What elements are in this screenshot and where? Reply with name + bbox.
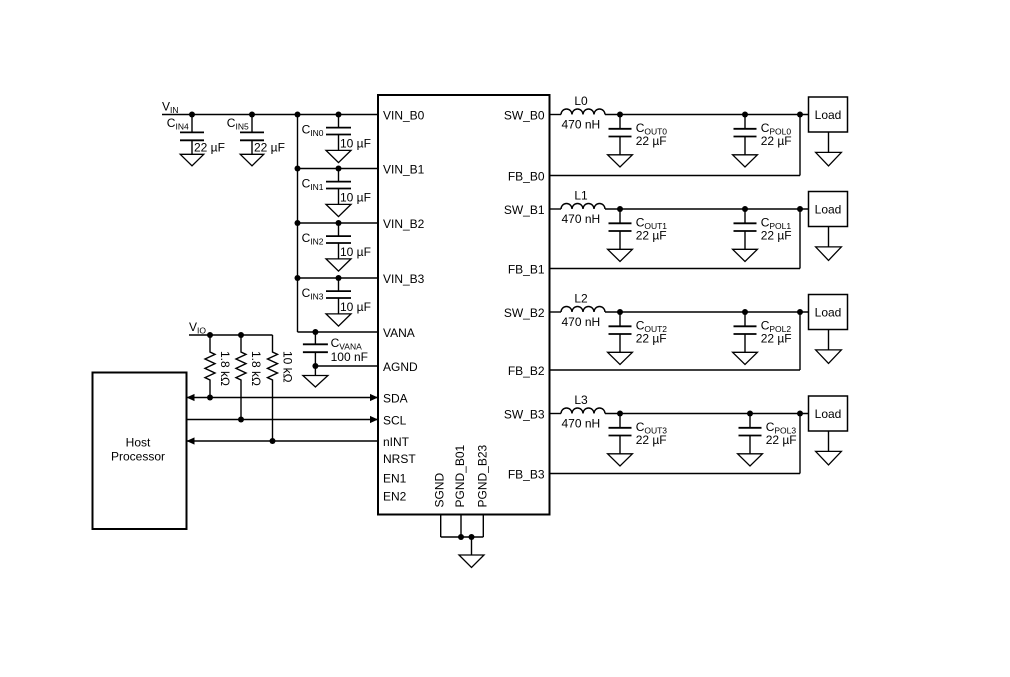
wire VIN vertical bus — [297, 115, 299, 333]
label COUT2 — [636, 319, 668, 335]
capacitor CIN0 10uF — [326, 115, 351, 151]
svg-text:CIN3: CIN3 — [302, 286, 324, 302]
capacitor COUT2 22uF — [609, 312, 632, 352]
ground CIN5 — [240, 154, 264, 166]
label CPOL0 — [761, 121, 792, 137]
ground CIN3 — [326, 314, 351, 326]
pin label VANA — [383, 326, 415, 340]
svg-text:22 µF: 22 µF — [761, 134, 792, 148]
junction CIN3-VIN_B3 — [336, 275, 342, 281]
net VIO label — [189, 320, 206, 336]
svg-text:Processor: Processor — [111, 450, 165, 464]
inductor L3 470nH — [561, 408, 605, 413]
svg-text:FB_B3: FB_B3 — [508, 468, 545, 482]
label L2 — [574, 292, 588, 306]
value CIN4 22 uF — [194, 140, 225, 154]
junction FB_B3 tap — [797, 411, 803, 417]
pin label EN1 — [383, 472, 407, 486]
wire FB_B2 — [550, 369, 801, 371]
ground COUT0 — [608, 155, 633, 167]
svg-text:22 µF: 22 µF — [636, 332, 667, 346]
svg-text:L2: L2 — [574, 292, 588, 306]
wire PGND_B23 down — [482, 515, 484, 538]
IC U1 main box — [378, 95, 550, 515]
wire VIN rail — [162, 114, 378, 116]
capacitor CPOL3 22uF — [739, 414, 762, 454]
pin label EN2 — [383, 490, 407, 504]
svg-text:Load: Load — [815, 407, 842, 421]
capacitor CPOL0 22uF — [734, 115, 757, 155]
junction CPOL3 — [747, 411, 753, 417]
junction FB_B2 tap — [797, 309, 803, 315]
value CIN2 10 uF — [340, 245, 371, 259]
pin label NRST — [383, 452, 416, 466]
junction bus-VIN_B1 — [295, 166, 301, 172]
wire FB_B3 vertical — [799, 414, 801, 474]
label CPOL3 — [766, 420, 797, 436]
ground COUT1 — [608, 249, 633, 261]
junction VIN-CIN5 — [249, 112, 255, 118]
capacitor COUT3 22uF — [609, 414, 632, 454]
junction bus-VIN_B3 — [295, 275, 301, 281]
value CPOL2 22 uF — [761, 332, 792, 346]
value L0 470 nH — [562, 117, 601, 131]
pin label SCL — [383, 414, 407, 428]
pin label SW_B1 — [504, 203, 545, 217]
label L1 — [574, 189, 588, 203]
wire L3 to Load — [605, 413, 809, 415]
load box block 3 — [809, 396, 848, 431]
svg-text:FB_B2: FB_B2 — [508, 364, 545, 378]
junction CIN2-VIN_B2 — [336, 220, 342, 226]
svg-text:L3: L3 — [574, 393, 588, 407]
wire FB_B0 — [550, 175, 801, 177]
pin label PGND_B01 — [453, 444, 467, 507]
svg-text:470 nH: 470 nH — [562, 315, 601, 329]
value COUT0 22 uF — [636, 134, 667, 148]
wire L1 to Load — [605, 208, 809, 210]
svg-text:CIN0: CIN0 — [302, 123, 324, 139]
wire SW_B2 to L2 — [550, 311, 562, 313]
wire ground bar — [441, 536, 484, 538]
svg-text:CIN5: CIN5 — [227, 116, 249, 132]
ground CPOL0 — [733, 155, 758, 167]
ground CIN0 — [326, 150, 351, 162]
svg-text:VIN_B3: VIN_B3 — [383, 272, 425, 286]
junction VIN-CIN4 — [189, 112, 195, 118]
wire L0 to Load — [605, 114, 809, 116]
net VIN label — [162, 100, 179, 116]
ground CPOL3 — [738, 454, 763, 466]
junction CIN1-VIN_B1 — [336, 166, 342, 172]
inductor L0 470nH — [561, 109, 605, 115]
pin label FB_B0 — [508, 170, 545, 184]
svg-text:CIN1: CIN1 — [302, 177, 324, 193]
capacitor CIN3 10uF — [326, 278, 351, 314]
capacitor COUT0 22uF — [609, 115, 632, 155]
svg-text:470 nH: 470 nH — [562, 117, 601, 131]
resistor R3 10k nINT pullup — [268, 335, 278, 441]
svg-text:22 µF: 22 µF — [636, 229, 667, 243]
svg-text:SW_B3: SW_B3 — [504, 408, 545, 422]
host processor box — [93, 373, 187, 530]
ground PGND — [459, 537, 484, 568]
pin label PGND_B23 — [475, 444, 489, 507]
pin label FB_B2 — [508, 364, 545, 378]
svg-text:L1: L1 — [574, 189, 588, 203]
value COUT2 22 uF — [636, 332, 667, 346]
value R2 1.8 kOhm — [249, 351, 263, 386]
value CIN0 10 uF — [340, 137, 371, 151]
load box block 1 — [809, 192, 848, 227]
wire VIN_B1 feed — [298, 168, 379, 170]
capacitor CVANA 100nF — [303, 332, 328, 366]
label CIN0 — [302, 123, 324, 139]
value COUT1 22 uF — [636, 229, 667, 243]
svg-text:FB_B1: FB_B1 — [508, 263, 545, 277]
svg-text:22 µF: 22 µF — [761, 229, 792, 243]
pin label VIN_B0 — [383, 109, 425, 123]
pin label VIN_B2 — [383, 217, 425, 231]
junction stem-bar — [469, 534, 475, 540]
value L3 470 nH — [562, 416, 601, 430]
svg-text:VIN_B2: VIN_B2 — [383, 217, 425, 231]
label L0 — [574, 94, 588, 108]
junction VIN-CIN0 — [336, 112, 342, 118]
pin label SW_B3 — [504, 408, 545, 422]
junction R1-SDA — [207, 395, 213, 401]
svg-text:SW_B1: SW_B1 — [504, 203, 545, 217]
junction R3-nINT — [270, 438, 276, 444]
wire SGND down — [440, 515, 442, 538]
svg-text:10 µF: 10 µF — [340, 245, 371, 259]
inductor L2 470nH — [561, 307, 605, 312]
svg-text:22 µF: 22 µF — [254, 140, 285, 154]
label CIN3 — [302, 286, 324, 302]
svg-text:10 µF: 10 µF — [340, 191, 371, 205]
ground Load2 — [816, 330, 842, 364]
wire SW_B3 to L3 — [550, 413, 562, 415]
svg-text:Load: Load — [815, 203, 842, 217]
inductor L1 470nH — [561, 204, 605, 210]
wire FB_B2 vertical — [799, 312, 801, 370]
wire VIN_B3 feed — [298, 277, 379, 279]
label CPOL1 — [761, 216, 792, 232]
svg-text:Load: Load — [815, 306, 842, 320]
svg-text:SW_B0: SW_B0 — [504, 109, 545, 123]
svg-text:SGND: SGND — [433, 472, 447, 507]
ground Load0 — [816, 132, 842, 166]
ground CPOL1 — [733, 249, 758, 261]
junction COUT3 — [617, 411, 623, 417]
svg-text:22 µF: 22 µF — [761, 332, 792, 346]
wire FB_B0 vertical — [799, 115, 801, 176]
label COUT0 — [636, 121, 668, 137]
value R1 1.8 kOhm — [218, 351, 232, 386]
label COUT3 — [636, 420, 668, 436]
svg-text:10 kΩ: 10 kΩ — [281, 351, 295, 383]
junction FB_B0 tap — [797, 112, 803, 118]
ground AGND — [303, 366, 328, 387]
ground COUT2 — [608, 352, 633, 364]
wire FB_B3 — [550, 473, 801, 475]
capacitor CIN4 22uF — [180, 115, 204, 155]
svg-text:100 nF: 100 nF — [331, 350, 368, 364]
svg-text:VANA: VANA — [383, 326, 415, 340]
svg-text:CIN2: CIN2 — [302, 231, 324, 247]
junction PGND_B01-bar — [458, 534, 464, 540]
capacitor CIN5 22uF — [240, 115, 264, 155]
wire AGND — [315, 365, 378, 367]
svg-text:VIO: VIO — [189, 320, 206, 336]
pin label FB_B1 — [508, 263, 545, 277]
svg-text:22 µF: 22 µF — [636, 433, 667, 447]
value CPOL3 22 uF — [766, 433, 797, 447]
pin label SGND — [433, 472, 447, 507]
pin label VIN_B1 — [383, 163, 425, 177]
ground CPOL2 — [733, 352, 758, 364]
wire VANA feed — [298, 331, 379, 333]
junction CVANA-VANA — [312, 329, 318, 335]
svg-text:10 µF: 10 µF — [340, 137, 371, 151]
junction VIN-bus — [295, 112, 301, 118]
wire nINT — [187, 437, 379, 444]
junction CVANA-AGND — [312, 363, 318, 369]
wire VIN_B2 feed — [298, 222, 379, 224]
wire SW_B0 to L0 — [550, 114, 562, 116]
svg-text:PGND_B01: PGND_B01 — [453, 444, 467, 507]
wire PGND_B01 down — [460, 515, 462, 538]
value CVANA 100 nF — [331, 350, 368, 364]
value CIN3 10 uF — [340, 300, 371, 314]
pin label VIN_B3 — [383, 272, 425, 286]
junction CPOL0 — [742, 112, 748, 118]
svg-text:10 µF: 10 µF — [340, 300, 371, 314]
label CIN1 — [302, 177, 324, 193]
resistor R2 1.8k SCL pullup — [236, 335, 246, 420]
svg-text:SDA: SDA — [383, 392, 408, 406]
capacitor CPOL2 22uF — [734, 312, 757, 352]
junction bus-VIN_B2 — [295, 220, 301, 226]
label CIN4 — [167, 116, 189, 132]
pin label SDA — [383, 392, 408, 406]
svg-text:CIN4: CIN4 — [167, 116, 189, 132]
svg-text:Host: Host — [126, 436, 151, 450]
ground Load3 — [816, 431, 842, 465]
resistor R1 1.8k SDA pullup — [205, 335, 215, 398]
label CPOL2 — [761, 319, 792, 335]
svg-text:22 µF: 22 µF — [636, 134, 667, 148]
svg-text:L0: L0 — [574, 94, 588, 108]
ground CIN2 — [326, 259, 351, 271]
wire L2 to Load — [605, 311, 809, 313]
wire SDA — [187, 394, 379, 401]
wire VIO rail — [189, 334, 273, 336]
value CPOL0 22 uF — [761, 134, 792, 148]
capacitor CIN1 10uF — [326, 169, 351, 205]
ground COUT3 — [608, 454, 633, 466]
svg-text:NRST: NRST — [383, 452, 416, 466]
wire SW_B1 to L1 — [550, 208, 562, 210]
wire FB_B1 vertical — [799, 209, 801, 269]
value L1 470 nH — [562, 212, 601, 226]
svg-text:VIN: VIN — [162, 100, 179, 116]
pin label AGND — [383, 360, 418, 374]
svg-text:PGND_B23: PGND_B23 — [475, 444, 489, 507]
ground Load1 — [816, 227, 842, 261]
svg-text:22 µF: 22 µF — [766, 433, 797, 447]
pin label FB_B3 — [508, 468, 545, 482]
capacitor COUT1 22uF — [609, 209, 632, 249]
svg-text:470 nH: 470 nH — [562, 416, 601, 430]
capacitor CPOL1 22uF — [734, 209, 757, 249]
junction VIO-R2 — [238, 332, 244, 338]
pin label nINT — [383, 435, 410, 449]
junction COUT0 — [617, 112, 623, 118]
load box block 0 — [809, 97, 848, 132]
svg-text:SCL: SCL — [383, 414, 407, 428]
pin label SW_B2 — [504, 306, 545, 320]
ground CIN1 — [326, 204, 351, 216]
junction COUT1 — [617, 206, 623, 212]
svg-text:EN1: EN1 — [383, 472, 407, 486]
label COUT1 — [636, 216, 668, 232]
pin label SW_B0 — [504, 109, 545, 123]
value R3 10 kOhm — [281, 351, 295, 383]
svg-text:Load: Load — [815, 108, 842, 122]
value L2 470 nH — [562, 315, 601, 329]
junction COUT2 — [617, 309, 623, 315]
load box block 2 — [809, 295, 848, 330]
wire SCL — [187, 416, 379, 423]
value CIN1 10 uF — [340, 191, 371, 205]
svg-text:22 µF: 22 µF — [194, 140, 225, 154]
junction FB_B1 tap — [797, 206, 803, 212]
svg-text:FB_B0: FB_B0 — [508, 170, 545, 184]
svg-text:SW_B2: SW_B2 — [504, 306, 545, 320]
svg-text:VIN_B0: VIN_B0 — [383, 109, 425, 123]
value CPOL1 22 uF — [761, 229, 792, 243]
capacitor CIN2 10uF — [326, 223, 351, 259]
value CIN5 22 uF — [254, 140, 285, 154]
svg-text:VIN_B1: VIN_B1 — [383, 163, 425, 177]
label CVANA — [331, 336, 363, 352]
svg-text:nINT: nINT — [383, 435, 410, 449]
junction VIO-R1 — [207, 332, 213, 338]
svg-text:470 nH: 470 nH — [562, 212, 601, 226]
value COUT3 22 uF — [636, 433, 667, 447]
junction CPOL2 — [742, 309, 748, 315]
svg-text:1.8 kΩ: 1.8 kΩ — [249, 351, 263, 386]
junction CPOL1 — [742, 206, 748, 212]
label CIN5 — [227, 116, 249, 132]
svg-text:EN2: EN2 — [383, 490, 407, 504]
wire FB_B1 — [550, 268, 801, 270]
svg-text:1.8 kΩ: 1.8 kΩ — [218, 351, 232, 386]
svg-text:AGND: AGND — [383, 360, 418, 374]
ground CIN4 — [180, 154, 204, 166]
junction R2-SCL — [238, 417, 244, 423]
label CIN2 — [302, 231, 324, 247]
label L3 — [574, 393, 588, 407]
